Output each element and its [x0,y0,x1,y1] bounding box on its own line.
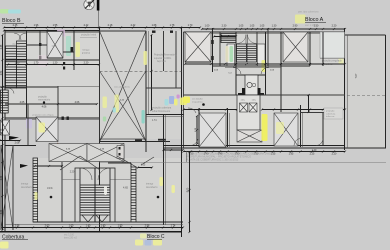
left tall xbrace [1,145,13,230]
svg-text:telha cer.: telha cer. [326,115,335,118]
svg-text:PLANTA DE COBERTURA ESC 1:100: PLANTA DE COBERTURA ESC 1:100 10/2013 [186,159,239,162]
Bloco A wall x220 [219,32,221,66]
drain dot B [43,101,45,103]
svg-text:ver detalhe: ver detalhe [192,98,204,101]
highlight violet xbox top [57,30,65,37]
machine platform hatch [237,130,262,142]
Bloco B wall y118 [5,118,99,120]
Bloco A right wall [344,28,346,150]
highlight yellow bc1 [135,240,143,246]
svg-text:esc 1:100: esc 1:100 [64,235,75,237]
svg-text:1.05: 1.05 [239,25,244,28]
dim row y109 left [182,108,238,110]
stair top door arc 2 [19,33,26,40]
annex dashed line [347,94,386,96]
stamp left vertical [186,151,188,162]
highlight blue bc [145,240,152,246]
dim line 2 top Bloco B [3,29,100,31]
highlight cyan box [165,99,169,106]
svg-text:2.45: 2.45 [13,24,18,27]
big X panel frame [100,31,147,139]
svg-text:terraço: terraço [146,183,154,186]
svg-text:2.25: 2.25 [310,153,315,156]
xband inner rect [117,146,124,159]
Bloco B left wall [4,31,6,232]
inner dim vertical x151 [150,34,152,111]
Bloco B wall y86 right [58,85,99,87]
Bloco B wall x40 [39,31,41,60]
annex top wall [345,34,386,36]
bloco C dim bottom [1,226,184,228]
annex inner wall [346,35,348,148]
small xbox left col [1,120,10,135]
stair room left white [227,44,235,66]
core dark rect 2 [258,88,261,95]
ladder wall left [33,158,38,222]
bloco C wall y179 [62,179,131,181]
vert x131 below [130,163,132,167]
label Bloco A underline [305,21,326,23]
highlight green over Bloco B [0,9,9,14]
wall y112.5 right [300,112,325,114]
highlight yellow Bloco A [295,15,306,24]
svg-text:1.35: 1.35 [122,162,127,164]
highlight yellow box w [180,98,187,106]
middle room wall y88 [146,87,182,89]
Bloco A bottom dim text [189,153,337,156]
Bloco B wall x58 low [57,86,59,118]
highlight yellow box s [174,99,178,106]
door jambs y64 [63,62,65,70]
Bloco A top wall [184,32,346,34]
svg-text:1.70: 1.70 [34,61,39,64]
svg-text:1.40: 1.40 [86,224,91,227]
door jamb A2 [211,56,213,60]
dark blob top mid wall [152,31,173,33]
big X panel diagonal 2 [100,31,147,142]
svg-text:Projeção Reservatório: Projeção Reservatório [154,54,177,57]
svg-text:1.00: 1.00 [205,25,210,28]
Bloco B dim y104 text [20,101,47,109]
svg-text:1.40: 1.40 [101,224,106,227]
label Cobertura underline [2,239,28,241]
stair room right white [258,44,266,66]
middle left wall heavy [99,27,101,232]
bloco C corner vertical [181,225,183,232]
highlight yellow under Cobertura [0,242,9,249]
cobertura xband left [49,144,87,162]
Bloco A wall y62 [185,61,211,63]
black arrow marker [9,136,19,140]
svg-text:1.74: 1.74 [152,120,157,122]
svg-text:escada: escada [12,44,20,46]
svg-text:projeção pergolado: projeção pergolado [322,60,342,63]
Bloco A wall x257 [256,32,258,44]
gray text near yellow [192,98,204,104]
ladder wall right [131,167,136,222]
Bloco B top wall [5,31,146,33]
bloco C wall x62 [61,162,63,222]
note terraco right [146,183,158,189]
lower xbox left [199,113,226,147]
svg-text:2.18: 2.18 [108,24,113,27]
file stamp text [186,153,271,162]
boxed gray note right [324,108,343,119]
lower xbox right [274,113,298,146]
speck dims xband [66,149,105,151]
Bloco A wall x246.5 [246,44,248,62]
svg-text:1.05: 1.05 [260,25,265,28]
door jamb dark b [39,56,41,59]
Bloco A bottom dim [182,150,346,152]
stair C inner wall right [109,168,111,222]
svg-text:2.20: 2.20 [84,61,89,64]
highlight small before Bloco C [140,234,147,239]
svg-text:2.20: 2.20 [332,153,337,156]
door arcs lower left [188,108,198,146]
svg-text:1.30: 1.30 [314,25,319,28]
dim row y109 right [261,108,346,110]
stair C outer box [75,168,115,222]
middle wall x176 upper [175,31,177,88]
highlight blue box [169,96,174,104]
dim text top Bloco B [13,24,193,27]
Bloco B wall y52 [63,51,74,53]
svg-text:privativo: privativo [82,52,91,55]
svg-text:1.68: 1.68 [152,24,157,27]
svg-text:1.55: 1.55 [53,24,58,27]
svg-text:terraço: terraço [83,49,91,52]
black dot near yellow [202,103,205,106]
shaft xbox Bloco B upper [47,32,63,59]
wall x300 dbl [301,105,303,147]
left dim text rot [1,44,3,214]
gray text top right room [320,59,345,66]
Bloco B dim row y64 [7,63,100,65]
svg-text:cobertura: cobertura [326,112,336,115]
dim text top Bloco A [205,25,337,28]
highlight yellow bc2 [153,240,162,246]
tick row upper A [213,35,237,37]
Bloco B mid wall y60 [5,59,99,61]
highlight green small panel [103,117,106,122]
right dim vertical bloco C [188,151,190,233]
Bloco A wall x281 [280,32,282,112]
svg-text:2.90: 2.90 [293,25,298,28]
highlight yellow bc a [160,177,163,186]
speck text B2 [82,49,91,55]
highlight yellow Bloco B room [76,42,81,57]
speck text B1 [12,44,56,48]
core top wall y75 [236,74,266,76]
vdim x308 [307,94,309,113]
svg-text:descoberto: descoberto [146,186,158,189]
stair C divider [94,168,96,222]
svg-text:1.30: 1.30 [272,25,277,28]
big X panel diagonal 1 [100,31,147,142]
label Bloco B underline [2,22,24,24]
soft yellow glow right xbox [276,122,284,134]
svg-text:1.20: 1.20 [53,61,58,64]
svg-text:projeção cobertura: projeção cobertura [152,107,172,110]
Bloco B mid wall y58 [47,57,63,59]
roof ridge left [60,156,100,170]
svg-text:7.07: 7.07 [355,73,358,78]
dim y140 left [0,139,21,144]
svg-text:1.78: 1.78 [170,24,175,27]
svg-text:1.55: 1.55 [271,153,276,156]
svg-text:terraço: terraço [21,183,29,186]
rust diagonal mark [57,143,68,149]
middle wall x165.5 lower [165,115,167,226]
Bloco B interior fill [5,31,99,118]
middle wall x148.5 [148,31,150,115]
left dim vertical [1,34,3,231]
core fixture circle 2 [252,83,256,87]
highlight yellow note box [183,97,190,104]
dim text cobertura top [70,162,127,174]
tick marks y150 mid [162,149,184,151]
highlight yellow stair right [262,60,266,72]
note text reservatorio sup [154,54,177,64]
svg-text:1.90: 1.90 [118,224,123,227]
svg-text:8.60: 8.60 [188,187,190,192]
dim line top Bloco B [3,26,201,28]
Bloco B wall x74 [73,31,75,70]
svg-text:1.74: 1.74 [171,224,176,227]
arrow marker bottom left [20,164,28,168]
svg-text:3.30: 3.30 [1,175,3,180]
highlight yellow 35 [35,192,38,200]
elevator cab 2 [249,103,257,112]
highlight magenta dot [177,95,180,99]
elevator shaft box [237,95,260,130]
svg-text:superior 10.000L: superior 10.000L [154,57,172,60]
svg-text:2.08: 2.08 [15,142,20,145]
svg-text:2.80: 2.80 [1,70,3,75]
svg-text:i=1%: i=1% [47,187,53,190]
stair A west flight [237,44,247,62]
svg-text:esquadrias: esquadrias [192,100,204,103]
speck text cluster A2 [241,100,257,102]
drain dot right C [157,196,160,199]
north arrow symbol [84,0,94,10]
svg-text:1.60: 1.60 [69,224,74,227]
vdim inside left room A [195,115,198,145]
stair C V arrow [82,215,108,222]
svg-text:1.95: 1.95 [289,153,294,156]
big X panel diagonal 3 [100,71,147,142]
middle wall x146 [145,31,147,152]
svg-text:1.05: 1.05 [250,25,255,28]
door jamb A1 [211,40,213,44]
roof ridge right [117,156,154,168]
dark door chunk [71,47,74,52]
svg-text:2.30: 2.30 [222,25,227,28]
highlight yellow x144 [144,51,147,65]
svg-text:pav. tipo cobertura: pav. tipo cobertura [298,11,319,14]
highlight yellow shaft lower [39,123,46,133]
svg-text:1.20: 1.20 [15,61,20,64]
core fixture circle [247,82,252,87]
terrace xbox right [283,32,308,62]
gray note reservatorio B [38,96,51,102]
svg-text:elev.: elev. [241,100,246,102]
svg-text:descoberto: descoberto [21,186,33,189]
door jambs y118 [62,117,69,120]
Bloco A dim row y64 [184,63,346,65]
Bloco B stairwell wall [26,31,28,118]
middle right wall x183.5 [183,32,185,148]
stair C arcs [80,168,110,180]
dashed projection line y71 [100,70,182,72]
Bloco A louver [221,34,236,43]
svg-text:elev.: elev. [252,100,257,102]
core dark rect 1 [242,88,245,95]
big X panel diagonal 4 [100,71,147,142]
stair A east flight [247,44,257,62]
wall y163 mid [108,162,131,164]
light room top right [320,32,345,58]
svg-text:2.70: 2.70 [1,128,3,133]
core door arcs [233,67,269,74]
svg-text:Aço Inox: Aço Inox [157,60,167,63]
highlight yellow bc b [172,185,175,193]
svg-text:4.65: 4.65 [123,187,128,190]
middle wall y141.5 [100,141,171,143]
bloco C dim text [15,224,176,227]
wall x227 dbl [228,108,230,147]
svg-text:hall: hall [228,73,232,75]
door arc mini stair [8,88,14,94]
svg-text:telha fibrocimento: telha fibrocimento [152,110,171,113]
annex interior fill [347,35,386,148]
svg-text:2.98: 2.98 [15,224,20,227]
wall y145 left [5,145,36,147]
elevator cab 1 [240,103,248,112]
bloco C bottom wall [5,222,183,224]
shaft xbox Bloco B lower [36,117,58,142]
highlight yellow elevator [262,114,268,141]
svg-text:4.06: 4.06 [75,101,80,104]
left mini stair [1,90,9,113]
stair C flight right [95,185,110,215]
Bloco B dim text y64 [15,61,89,64]
Bloco A wall x236 [235,32,237,95]
svg-text:área descoberta: área descoberta [114,86,131,89]
Bloco A bottom wall [164,146,387,149]
svg-text:projeção: projeção [38,96,48,99]
highlight cyan over Bloco B [8,10,21,14]
middle column interior fill [100,31,182,139]
annex right wall [385,35,387,148]
highlight yellow annex edge [339,49,344,64]
note terraco left [21,183,33,189]
Bloco A wall y95 [184,94,346,96]
svg-text:2.48: 2.48 [1,44,3,49]
stair C flight left [80,185,95,215]
stair C inner wall left [79,168,81,222]
stair Bloco B west flight [6,46,17,88]
Bloco B wall y45 [27,44,48,46]
svg-text:2.20: 2.20 [70,172,75,174]
highlight cyan-green stripe [66,36,71,56]
svg-text:4.06: 4.06 [42,106,47,109]
section marker bar [97,0,100,11]
highlight teal stripe x141 [142,110,145,124]
Bloco B wall y104 [5,103,58,105]
drain dot left C [50,196,53,199]
svg-text:1.70: 1.70 [188,24,193,27]
svg-text:2.42: 2.42 [84,24,89,27]
core dark bits [238,93,264,98]
Bloco A wall y66 [213,66,310,68]
Bloco A interior fill [184,32,345,146]
svg-text:shaft: shaft [52,45,57,48]
svg-text:3.30: 3.30 [1,209,3,214]
small xbox cobertura left [35,116,37,118]
dim line top Bloco A [201,28,346,30]
door jamb dark a [39,43,41,46]
Bloco A wall x212.5 [212,28,214,72]
svg-text:2.98: 2.98 [145,224,150,227]
svg-text:área 230 m2: área 230 m2 [64,237,78,240]
highlight pink room B [38,55,48,67]
speck text cluster A1 [214,70,275,75]
Bloco B wall y87 [0,86,58,88]
cobertura xband right [87,144,124,162]
Bloco A wall x268 [267,28,269,66]
svg-text:2.60: 2.60 [45,224,50,227]
highlight yellow big panel b [115,95,119,113]
bloco C heavy bottom line [0,231,182,233]
core shaft [245,75,258,95]
highlight cream stripe [226,46,229,62]
svg-text:4.05: 4.05 [20,101,25,104]
highlight white bc [104,186,107,195]
tick row y166 left [34,165,63,167]
middle right wall x181.5 [181,28,183,237]
note text projecao cobertura [152,107,172,113]
Bloco B dim row y104 right [57,103,98,105]
highlight yellow big panel a [103,97,107,109]
wall dark dashes y140 [135,139,166,141]
stair Bloco B east flight [17,41,27,88]
svg-text:1.96: 1.96 [34,24,39,27]
Bloco B wall x28 low [27,104,29,145]
section line [97,11,99,29]
svg-text:projeção: projeção [326,110,335,113]
Bloco A wall x323 [322,32,324,146]
highlight cyan small panel [113,108,117,113]
Bloco C interior fill [33,158,183,222]
svg-text:reservatório: reservatório [38,99,51,102]
door arc br [316,139,323,146]
svg-text:projeção caixa d'água: projeção caixa d'água [32,114,54,117]
highlight green stair left [230,46,234,62]
svg-text:3.00: 3.00 [1,99,3,104]
terrace xbox left [185,32,211,62]
long ground line [100,161,387,163]
Bloco A wall x310 [309,32,311,66]
label Bloco C underline [147,238,162,240]
middle wall x163 lower [163,115,165,226]
door arc br2 [294,139,301,146]
gray note top right [80,34,97,38]
middle wall x163 upper [163,31,165,71]
faint text right of Cobertura [64,235,78,240]
svg-text:2.20: 2.20 [332,25,337,28]
